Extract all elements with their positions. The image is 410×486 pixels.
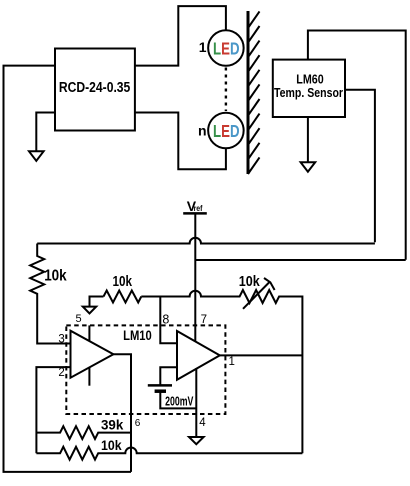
svg-text:LM10: LM10: [123, 327, 152, 343]
svg-text:Temp. Sensor: Temp. Sensor: [274, 85, 343, 100]
svg-text:39k: 39k: [101, 417, 124, 433]
svg-text:10k: 10k: [44, 268, 67, 285]
svg-text:n: n: [198, 122, 207, 138]
svg-text:200mV: 200mV: [165, 394, 194, 408]
svg-text:ref: ref: [194, 203, 203, 213]
svg-text:5: 5: [75, 313, 81, 325]
svg-text:LED: LED: [213, 121, 240, 141]
svg-text:8: 8: [162, 313, 169, 327]
svg-text:6: 6: [135, 418, 141, 429]
svg-text:10k: 10k: [101, 437, 122, 453]
svg-text:LED: LED: [213, 38, 240, 58]
svg-text:1: 1: [199, 39, 207, 55]
svg-text:RCD-24-0.35: RCD-24-0.35: [59, 80, 130, 96]
svg-text:1: 1: [229, 356, 235, 368]
svg-text:4: 4: [199, 417, 206, 429]
svg-text:10k: 10k: [239, 274, 261, 290]
svg-text:3: 3: [58, 334, 64, 346]
svg-text:2: 2: [58, 367, 64, 379]
svg-text:10k: 10k: [113, 274, 133, 290]
svg-text:7: 7: [201, 314, 207, 326]
